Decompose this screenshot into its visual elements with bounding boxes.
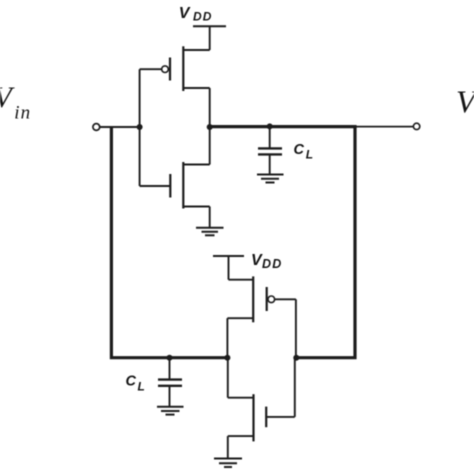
node capacitor C1 junction dot	[267, 123, 273, 129]
node inverter2 output junction dot	[224, 355, 230, 361]
transistor M1 PMOS inverter1	[162, 26, 210, 127]
svg-text:V: V	[0, 81, 16, 114]
ground capacitor C1	[257, 175, 284, 183]
transistor M2 NMOS inverter1	[140, 127, 210, 228]
capacitor C1 load CL top	[258, 126, 282, 174]
wire inverter1 output thick rail	[210, 125, 357, 128]
capacitor C2 load CL bottom	[158, 358, 182, 407]
wire input Vin to gate node	[100, 126, 140, 128]
node inverter1 output junction dot	[207, 124, 213, 130]
ground inverter1 NMOS source	[196, 228, 224, 236]
transistor M4 NMOS inverter2	[228, 358, 295, 458]
svg-text:L: L	[306, 148, 313, 162]
node input junction dot	[137, 124, 143, 130]
svg-text:C: C	[294, 142, 305, 158]
label CL capacitor C2	[126, 374, 145, 394]
svg-text:V: V	[456, 84, 474, 120]
power VDD rail inverter1	[193, 25, 226, 27]
transistor M3 PMOS inverter2	[227, 256, 296, 358]
ground inverter2 NMOS source	[214, 459, 242, 468]
label CL capacitor C1	[294, 142, 314, 162]
svg-text:C: C	[126, 374, 137, 390]
svg-text:in: in	[14, 102, 31, 123]
wire feedback right thick vertical	[296, 127, 355, 358]
node Vout output terminal	[413, 123, 419, 129]
node inverter2 input junction dot	[293, 355, 299, 361]
label VDD inverter1	[179, 5, 213, 23]
svg-text:DD: DD	[193, 9, 213, 23]
wire PMOS M1 gate lead	[140, 68, 162, 70]
wire PMOS M3 gate stem	[295, 299, 297, 357]
power VDD rail inverter2	[213, 255, 244, 257]
svg-text:L: L	[138, 379, 145, 393]
wire feedback left thick vertical	[111, 127, 227, 358]
svg-text:V: V	[179, 5, 191, 22]
label VDD inverter2	[251, 252, 282, 271]
node Vin input terminal	[93, 124, 100, 131]
svg-text:DD: DD	[262, 257, 282, 271]
node capacitor C2 junction dot	[167, 355, 173, 361]
label Vin	[0, 81, 31, 123]
wire to Vout terminal	[355, 126, 413, 128]
ground capacitor C2	[157, 407, 184, 415]
wire NMOS M4 gate stem	[294, 358, 296, 417]
wire inverter1 gate vertical	[139, 69, 141, 186]
